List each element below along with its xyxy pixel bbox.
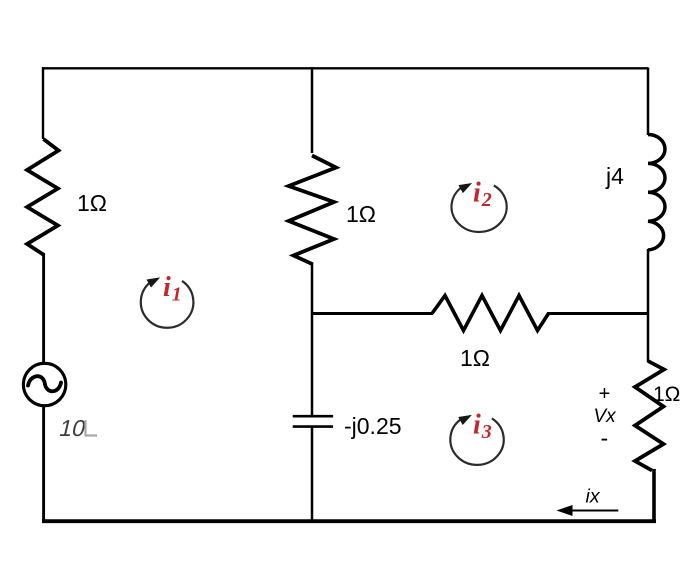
svg-text:i2: i2: [473, 178, 492, 211]
svg-text:-j0.25: -j0.25: [344, 413, 402, 439]
mesh loop i1 arc: [141, 281, 194, 328]
svg-text:1Ω: 1Ω: [653, 383, 680, 406]
source V1 sine: [28, 376, 61, 391]
capacitor -j0.25 bottom plate: [293, 425, 333, 428]
capacitor -j0.25 top plate: [293, 415, 333, 418]
wire mid horizontal left: [311, 312, 433, 315]
resistor 1Ω middle: [289, 156, 336, 265]
angle symbol of 10∠: [86, 420, 98, 436]
current arrow ix line: [568, 510, 618, 512]
wire middle centre: [311, 263, 314, 416]
svg-text:ix: ix: [586, 486, 601, 508]
mesh loop i2 arrowhead: [458, 183, 472, 193]
wire right upper: [647, 68, 650, 136]
svg-text:1Ω: 1Ω: [346, 201, 376, 227]
resistor 1Ω left: [27, 139, 58, 255]
svg-text:j4: j4: [605, 163, 624, 189]
wire left upper: [42, 67, 44, 139]
svg-text:+: +: [599, 383, 611, 405]
source V1 ac circle: [23, 363, 65, 405]
mesh loop i2 arc: [451, 186, 506, 232]
svg-text:Vx: Vx: [594, 406, 618, 427]
mesh loop i3 arc: [450, 418, 503, 464]
wire top: [43, 67, 648, 69]
wire middle lower: [311, 427, 314, 521]
mesh loop i1 arrowhead: [147, 277, 161, 287]
wire middle upper: [311, 67, 314, 153]
svg-text:1Ω: 1Ω: [460, 345, 490, 371]
wire bottom: [42, 519, 656, 523]
wire right lower: [652, 469, 656, 521]
svg-text:10: 10: [57, 415, 89, 441]
svg-text:1Ω: 1Ω: [77, 190, 107, 216]
label 10∠ value: [57, 415, 89, 441]
wire left middle: [42, 253, 45, 363]
mesh loop i3 arrowhead: [458, 415, 472, 425]
wire mid horizontal right: [547, 312, 649, 315]
inductor j4: [648, 135, 665, 251]
current arrow ix head: [557, 505, 573, 516]
resistor 1Ω right (Vx): [635, 361, 664, 471]
svg-text:i3: i3: [473, 410, 492, 443]
svg-text:-: -: [601, 425, 609, 451]
svg-text:i1: i1: [163, 272, 182, 305]
wire left lower: [42, 406, 45, 522]
resistor 1Ω mid horizontal: [432, 296, 549, 331]
wire right middle: [647, 249, 650, 362]
